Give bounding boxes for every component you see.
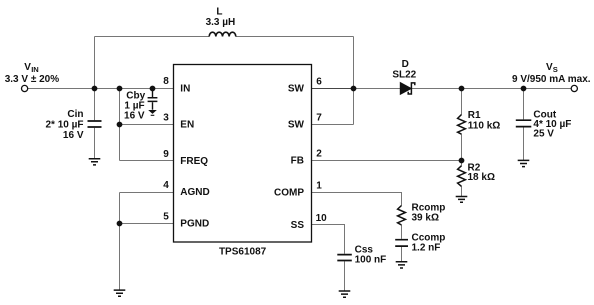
- svg-text:1.2 nF: 1.2 nF: [412, 242, 441, 253]
- svg-text:IN: IN: [31, 65, 39, 74]
- svg-text:3.3 V ± 20%: 3.3 V ± 20%: [5, 74, 60, 85]
- svg-text:TPS61087: TPS61087: [219, 247, 267, 258]
- svg-text:6: 6: [316, 77, 322, 88]
- svg-text:25 V: 25 V: [533, 129, 554, 140]
- svg-text:S: S: [553, 65, 558, 74]
- svg-text:FREQ: FREQ: [180, 156, 208, 167]
- svg-text:1: 1: [316, 181, 322, 192]
- svg-text:16 V: 16 V: [124, 111, 145, 122]
- svg-text:8: 8: [163, 76, 169, 87]
- svg-text:2* 10 µF: 2* 10 µF: [45, 119, 83, 130]
- svg-text:110 kΩ: 110 kΩ: [468, 121, 501, 132]
- svg-text:D: D: [402, 59, 409, 70]
- svg-text:39 kΩ: 39 kΩ: [412, 213, 439, 224]
- svg-text:AGND: AGND: [180, 187, 209, 198]
- svg-text:V: V: [24, 62, 31, 73]
- svg-text:2: 2: [316, 149, 322, 160]
- svg-text:10: 10: [316, 213, 328, 224]
- svg-text:FB: FB: [291, 156, 304, 167]
- svg-text:EN: EN: [180, 120, 194, 131]
- svg-text:SW: SW: [288, 83, 305, 94]
- svg-text:9 V/950 mA max.: 9 V/950 mA max.: [512, 74, 591, 85]
- svg-text:9: 9: [163, 149, 169, 160]
- svg-text:L: L: [216, 7, 222, 18]
- svg-text:SL22: SL22: [392, 70, 416, 81]
- svg-text:COMP: COMP: [274, 188, 304, 199]
- svg-text:3: 3: [163, 113, 169, 124]
- svg-text:100 nF: 100 nF: [355, 254, 387, 265]
- svg-text:3.3 µH: 3.3 µH: [206, 17, 236, 28]
- svg-text:16 V: 16 V: [63, 130, 84, 141]
- svg-text:7: 7: [316, 113, 322, 124]
- svg-text:IN: IN: [180, 83, 190, 94]
- svg-text:PGND: PGND: [180, 219, 209, 230]
- svg-text:18 kΩ: 18 kΩ: [468, 172, 495, 183]
- svg-text:SW: SW: [288, 120, 305, 131]
- svg-text:R1: R1: [468, 110, 481, 121]
- svg-text:5: 5: [163, 212, 169, 223]
- svg-text:4: 4: [163, 180, 169, 191]
- svg-text:Cin: Cin: [67, 109, 83, 120]
- svg-text:SS: SS: [291, 220, 305, 231]
